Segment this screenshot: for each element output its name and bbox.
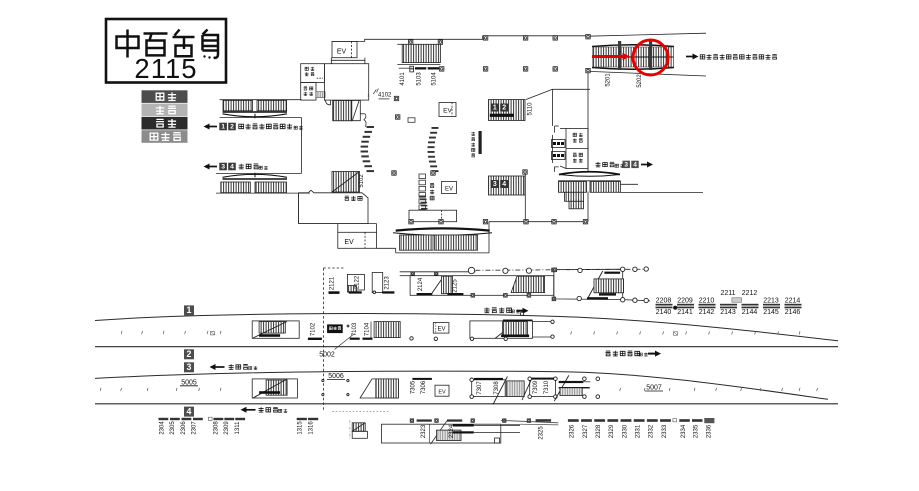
svg-text:4: 4 bbox=[502, 181, 506, 188]
mezz bottom squares bbox=[471, 294, 475, 298]
office room bbox=[299, 190, 368, 223]
bench box 1 bbox=[552, 140, 566, 148]
walkway lens top bbox=[592, 45, 674, 47]
svg-text:4: 4 bbox=[633, 161, 637, 168]
line under top bank bbox=[397, 64, 440, 66]
legend denshou bbox=[142, 117, 188, 130]
stair p3 left bbox=[252, 379, 297, 398]
svg-text:2208: 2208 bbox=[656, 297, 672, 304]
circle p1 bbox=[410, 337, 413, 340]
svg-text:2329: 2329 bbox=[609, 424, 615, 438]
bench box 2 bbox=[552, 152, 566, 160]
svg-text:3: 3 bbox=[221, 164, 225, 171]
namba direction right bbox=[596, 162, 601, 167]
mezz main box bbox=[410, 276, 554, 296]
svg-text:7306: 7306 bbox=[421, 380, 427, 394]
room walls above restrooms bbox=[526, 89, 553, 99]
svg-text:2141: 2141 bbox=[677, 309, 693, 316]
col squares top line bbox=[409, 40, 413, 44]
box 7309 7310 bbox=[530, 379, 556, 397]
svg-text:7309: 7309 bbox=[533, 380, 539, 394]
svg-text:2331: 2331 bbox=[635, 424, 641, 438]
bars 2326-2333 bbox=[568, 419, 671, 422]
svg-text:2326: 2326 bbox=[570, 424, 576, 438]
concourse right edge upper bbox=[587, 71, 589, 171]
escalator bank top stub bbox=[397, 43, 402, 45]
svg-text:EV: EV bbox=[437, 327, 445, 333]
svg-text:2336: 2336 bbox=[706, 424, 712, 438]
svg-text:1: 1 bbox=[493, 105, 497, 112]
bars 2334-2335 bbox=[679, 419, 702, 422]
mezz hatch 2125 bbox=[441, 276, 452, 294]
bars 2304-2307 bbox=[159, 418, 203, 420]
concourse top edge bbox=[332, 36, 588, 42]
box 2336 bbox=[704, 418, 714, 423]
midosuji corridor text bbox=[700, 55, 705, 59]
upper corridor hatch bbox=[223, 100, 253, 110]
svg-text:7103: 7103 bbox=[352, 322, 358, 336]
small room above central stair bbox=[409, 210, 457, 222]
womens washroom text left bbox=[305, 67, 308, 70]
escalator hatch right-mid bbox=[559, 182, 587, 193]
destination sign bar bbox=[479, 131, 482, 154]
boxes 3 4 left bbox=[219, 163, 227, 171]
svg-text:EV: EV bbox=[445, 187, 453, 193]
svg-text:2307: 2307 bbox=[192, 421, 198, 435]
svg-text:5110: 5110 bbox=[528, 102, 534, 116]
labels 2304-1311 bbox=[160, 421, 242, 435]
svg-text:2211: 2211 bbox=[720, 290, 735, 297]
escalator bank top hatch bbox=[402, 44, 440, 62]
svg-text:7310: 7310 bbox=[544, 380, 550, 394]
svg-text:2143: 2143 bbox=[720, 309, 736, 316]
platform 1 box bbox=[184, 305, 194, 315]
walkway post 1 bbox=[618, 41, 621, 70]
central stair hatch bbox=[400, 235, 434, 250]
track line B bbox=[95, 346, 838, 348]
lines right-mid bbox=[558, 180, 621, 182]
EV box p3 bbox=[435, 385, 449, 396]
bar under 1-2 bbox=[490, 114, 514, 117]
office text rotated bbox=[430, 184, 434, 188]
corridor bottom edge bbox=[589, 71, 706, 76]
svg-text:2125: 2125 bbox=[453, 279, 459, 293]
svg-text:EV: EV bbox=[344, 239, 354, 246]
walkway lens bottom bbox=[592, 68, 674, 70]
escalator p3 right bbox=[506, 381, 524, 397]
svg-text:EV: EV bbox=[337, 48, 347, 55]
arrow track 1-2 left bbox=[207, 126, 218, 128]
svg-text:5103: 5103 bbox=[417, 72, 423, 86]
svg-text:2124: 2124 bbox=[418, 277, 424, 291]
bottom edge office bbox=[299, 223, 377, 225]
svg-text:2145: 2145 bbox=[763, 309, 779, 316]
concourse right edge lower bbox=[587, 192, 589, 222]
boxes 1 2 left bbox=[219, 123, 227, 131]
namba text left bbox=[239, 164, 244, 169]
svg-text:EV: EV bbox=[443, 108, 452, 115]
escalator p1 center bbox=[374, 322, 400, 338]
gate hatch left bbox=[316, 92, 325, 98]
col sq bottom right bbox=[524, 220, 528, 224]
svg-text:2334: 2334 bbox=[681, 424, 687, 438]
bottom box bars bbox=[453, 424, 474, 426]
svg-text:2330: 2330 bbox=[622, 424, 628, 438]
walkway post 2 bbox=[649, 41, 652, 70]
svg-text:2122: 2122 bbox=[355, 275, 361, 289]
svg-text:1311: 1311 bbox=[235, 421, 241, 435]
bottom box diagonal bbox=[431, 421, 447, 444]
platform 3 box bbox=[184, 362, 194, 372]
svg-text:2328: 2328 bbox=[596, 424, 602, 438]
platform 2 box bbox=[184, 349, 194, 359]
svg-text:2213: 2213 bbox=[763, 297, 779, 304]
bars under top bank bbox=[399, 67, 414, 69]
col squares bottom edge bbox=[409, 220, 413, 224]
box 7307 7308 bbox=[472, 380, 506, 397]
svg-text:2: 2 bbox=[502, 105, 506, 112]
mens washroom text right bbox=[573, 133, 576, 136]
stair steps right-mid bbox=[565, 192, 584, 201]
col squares row mid bbox=[440, 67, 444, 71]
col squares center bbox=[392, 171, 396, 175]
bottom box hatch bbox=[437, 430, 462, 441]
roof band bbox=[400, 271, 476, 273]
door hook bbox=[325, 100, 331, 105]
EV shaft line bbox=[331, 59, 365, 61]
svg-text:5201: 5201 bbox=[606, 73, 612, 87]
svg-text:2335: 2335 bbox=[694, 424, 700, 438]
escalator lens right-mid bbox=[559, 172, 620, 175]
svg-text:1: 1 bbox=[187, 305, 192, 315]
lower corridor hatch bbox=[221, 182, 251, 193]
left wall segment bbox=[301, 118, 303, 174]
office room big bbox=[324, 64, 368, 100]
EV box top-left bbox=[332, 41, 357, 57]
bars 1315 1316 bbox=[297, 418, 307, 420]
bottom box sq bbox=[495, 438, 500, 443]
mezz right box bbox=[554, 269, 623, 299]
svg-text:2309: 2309 bbox=[224, 421, 230, 435]
svg-text:5006: 5006 bbox=[328, 373, 344, 380]
ticket machines column bbox=[419, 174, 426, 210]
destination sign text bbox=[471, 132, 475, 136]
escalator 5110 hatch bbox=[489, 100, 526, 121]
room 2122 bbox=[347, 274, 364, 290]
svg-text:4: 4 bbox=[230, 164, 234, 171]
labels 2326-2336 bbox=[570, 424, 713, 438]
svg-text:1: 1 bbox=[221, 124, 225, 131]
svg-text:5002: 5002 bbox=[319, 352, 335, 359]
upper corridor top line bbox=[220, 99, 302, 101]
legend kenshoku bbox=[142, 90, 188, 103]
dashed marks mid bbox=[332, 410, 389, 412]
svg-text:2305: 2305 bbox=[170, 421, 176, 435]
arrow to midosuji bbox=[686, 56, 696, 58]
track line A bbox=[95, 314, 838, 341]
left edge below office bbox=[298, 193, 300, 224]
senboku koya text bbox=[239, 124, 244, 128]
svg-text:2304: 2304 bbox=[160, 421, 166, 435]
svg-text:2327: 2327 bbox=[583, 424, 589, 438]
svg-text:2146: 2146 bbox=[785, 309, 801, 316]
svg-text:2306: 2306 bbox=[181, 421, 187, 435]
lower corridor bottom line bbox=[216, 192, 310, 194]
dashdot top bbox=[475, 269, 646, 270]
tail after box bbox=[501, 420, 559, 422]
station name kanji bbox=[117, 30, 219, 59]
lower corridor lens bbox=[223, 174, 288, 177]
EV alcove bbox=[338, 232, 377, 248]
station name box bbox=[106, 19, 226, 83]
small stair bottom bbox=[352, 423, 365, 432]
mezz right escalator bbox=[587, 271, 603, 300]
ad grid 2208-2146 bbox=[656, 290, 802, 316]
platform 4 box bbox=[184, 407, 194, 417]
legend ekimeiban bbox=[142, 130, 188, 143]
EV box p1 bbox=[433, 323, 449, 334]
ticks platform 1 left bbox=[121, 331, 221, 334]
svg-text:1316: 1316 bbox=[309, 421, 315, 435]
red arrow bbox=[592, 55, 624, 58]
track line C bbox=[95, 371, 828, 399]
svg-text:2323: 2323 bbox=[421, 424, 427, 438]
track 3-4 boxes concourse bbox=[491, 180, 499, 188]
tall box bbox=[372, 273, 383, 293]
svg-text:7307: 7307 bbox=[477, 381, 483, 395]
svg-text:2333: 2333 bbox=[662, 424, 668, 438]
svg-text:3: 3 bbox=[187, 362, 192, 372]
svg-text:7305: 7305 bbox=[411, 380, 417, 394]
EV box center-top bbox=[439, 103, 456, 117]
svg-text:2332: 2332 bbox=[649, 424, 655, 438]
svg-text:3: 3 bbox=[493, 181, 497, 188]
concourse bottom edge right bbox=[489, 221, 588, 223]
ticks platform 3 right bbox=[620, 388, 818, 391]
ticket fan small bbox=[420, 196, 428, 210]
svg-text:7102: 7102 bbox=[311, 322, 317, 336]
escalator p3 center bbox=[360, 379, 398, 398]
namba arrow p4 bbox=[244, 409, 256, 411]
mens washroom text left bbox=[304, 87, 308, 90]
svg-text:4102: 4102 bbox=[378, 92, 392, 98]
alcove walls bbox=[376, 224, 378, 233]
upper corridor lines bbox=[223, 111, 288, 113]
svg-text:2123: 2123 bbox=[385, 276, 391, 290]
svg-text:5005: 5005 bbox=[181, 379, 197, 386]
track 1-2 boxes concourse bbox=[491, 104, 499, 112]
walkway hatch bbox=[593, 47, 674, 67]
svg-text:2325: 2325 bbox=[539, 426, 545, 440]
ticks platform 1 right bbox=[571, 331, 800, 334]
arrow track 3-4 left bbox=[207, 166, 218, 168]
mezz tail bbox=[623, 300, 650, 301]
svg-text:EV: EV bbox=[438, 390, 446, 396]
waiting room box bbox=[327, 324, 343, 333]
ticket gate fan center bbox=[428, 127, 439, 172]
escalator 5102 bbox=[332, 172, 360, 193]
koyasan text bbox=[484, 308, 489, 313]
main bottom box bbox=[382, 424, 501, 443]
restroom rooms left bbox=[301, 64, 325, 83]
ticks platform 3 left bbox=[100, 388, 221, 391]
svg-text:2142: 2142 bbox=[699, 309, 715, 316]
track line D bbox=[95, 403, 838, 405]
bars 2308-1311 bbox=[214, 418, 246, 420]
namba arrow p3 bbox=[213, 366, 225, 368]
svg-text:4101: 4101 bbox=[400, 72, 406, 86]
bars above box bbox=[417, 419, 432, 421]
svg-text:2140: 2140 bbox=[656, 309, 672, 316]
womens washroom text right bbox=[573, 153, 577, 156]
svg-text:2: 2 bbox=[230, 124, 234, 131]
svg-text:2308: 2308 bbox=[213, 421, 219, 435]
svg-text:2: 2 bbox=[187, 349, 192, 359]
svg-text:2212: 2212 bbox=[742, 290, 758, 297]
svg-text:3: 3 bbox=[624, 161, 628, 168]
stair side edge bbox=[360, 113, 365, 115]
stair below office bbox=[333, 101, 361, 121]
svg-text:2115: 2115 bbox=[134, 53, 197, 84]
svg-text:5007: 5007 bbox=[646, 385, 662, 392]
svg-text:2144: 2144 bbox=[742, 309, 758, 316]
svg-text:5202: 5202 bbox=[637, 74, 643, 88]
svg-text:2209: 2209 bbox=[677, 297, 693, 304]
svg-text:2121: 2121 bbox=[330, 276, 336, 290]
escalator 3-4 hatch bbox=[489, 176, 526, 195]
restroom rooms right bbox=[566, 129, 588, 169]
red circle 5202 bbox=[633, 40, 668, 75]
svg-text:4: 4 bbox=[187, 406, 192, 416]
bottom edge center bbox=[377, 247, 396, 249]
EV box center-bottom bbox=[442, 182, 457, 194]
svg-text:5102: 5102 bbox=[359, 174, 365, 188]
svg-text:x: x bbox=[368, 93, 370, 98]
dashed edge left strip bbox=[323, 268, 325, 411]
ticket gate fan left bbox=[361, 126, 374, 172]
senboku line text bbox=[606, 351, 611, 356]
svg-text:5104: 5104 bbox=[432, 72, 438, 86]
stairs far right p3 bbox=[554, 375, 569, 401]
lower corridor lines bbox=[223, 178, 288, 180]
svg-text:7104: 7104 bbox=[365, 322, 371, 336]
corridor top edge bbox=[588, 33, 706, 36]
upper corridor bottom line bbox=[220, 117, 302, 119]
stair p1 left bbox=[252, 321, 299, 338]
mezz hatch right bbox=[511, 276, 545, 292]
svg-text:1315: 1315 bbox=[298, 421, 304, 435]
svg-text:2214: 2214 bbox=[785, 297, 801, 304]
wall x525 bbox=[524, 175, 526, 222]
office text bbox=[345, 196, 349, 200]
stair p1 right bbox=[470, 321, 533, 338]
upper corridor lens bbox=[223, 114, 288, 117]
dots p3 bbox=[322, 380, 324, 382]
legend futsuu bbox=[142, 104, 188, 117]
svg-text:2210: 2210 bbox=[699, 297, 715, 304]
lower corridor top line bbox=[216, 172, 302, 174]
central lens bbox=[396, 228, 490, 230]
mezz diagonal bbox=[431, 276, 444, 295]
